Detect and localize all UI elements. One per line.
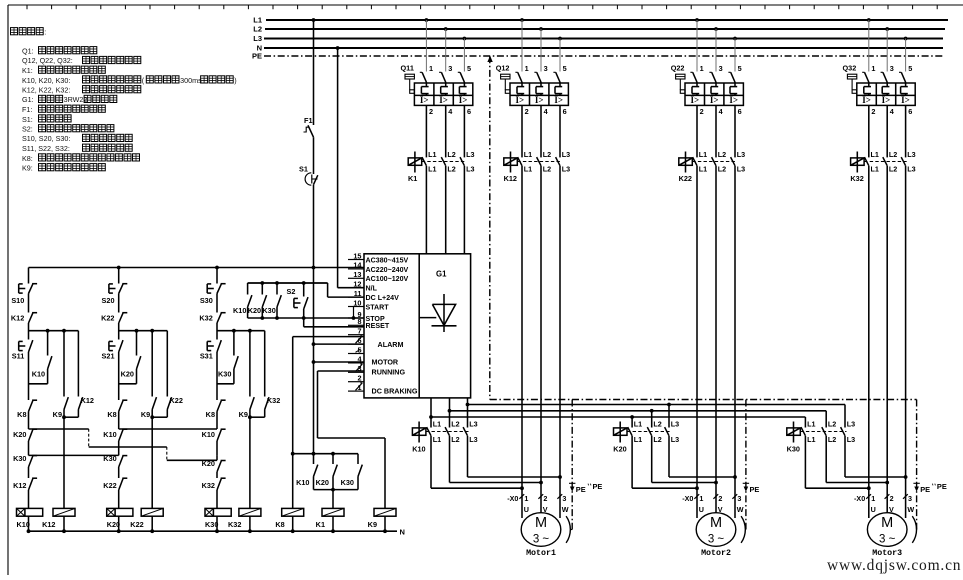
svg-text:L3: L3: [671, 435, 679, 444]
svg-text:L2: L2: [828, 420, 836, 429]
svg-text:1: 1: [525, 64, 529, 73]
svg-text:L2: L2: [447, 165, 455, 174]
svg-text:K8: K8: [17, 410, 26, 419]
svg-text:www.dqjsw.com.cn: www.dqjsw.com.cn: [827, 557, 961, 574]
svg-text:L3: L3: [562, 165, 570, 174]
svg-text:Q11: Q11: [401, 64, 414, 73]
svg-text:K22: K22: [679, 174, 692, 183]
svg-text:K10: K10: [202, 430, 215, 439]
svg-text:6: 6: [908, 107, 912, 116]
svg-text:K22: K22: [103, 481, 116, 490]
svg-text:3: 3: [544, 64, 548, 73]
svg-text:L3: L3: [907, 165, 915, 174]
svg-text:L2: L2: [543, 165, 551, 174]
svg-text:DC BRAKING: DC BRAKING: [372, 387, 418, 396]
svg-text:S11: S11: [12, 352, 25, 361]
svg-text:Q22: Q22: [671, 64, 685, 73]
svg-text:K9: K9: [239, 410, 248, 419]
svg-text:I>: I>: [439, 95, 448, 105]
svg-text:K10: K10: [32, 370, 45, 379]
svg-text:S10, S20, S30:: S10, S20, S30:: [22, 134, 70, 143]
svg-text:L1: L1: [634, 420, 642, 429]
svg-text:3: 3: [890, 64, 894, 73]
svg-text:Motor2: Motor2: [701, 549, 731, 558]
svg-text:L1: L1: [807, 435, 815, 444]
svg-text:K30: K30: [13, 454, 26, 463]
svg-text:L3: L3: [737, 150, 745, 159]
svg-text:RUNNING: RUNNING: [372, 368, 406, 377]
svg-text:1: 1: [700, 64, 704, 73]
svg-text:K12: K12: [42, 520, 55, 529]
svg-text:6: 6: [467, 107, 471, 116]
svg-text:K12: K12: [504, 174, 517, 183]
svg-text:L3: L3: [847, 420, 855, 429]
svg-text:PE: PE: [937, 482, 947, 491]
svg-text:N: N: [400, 528, 405, 537]
svg-text:S1:: S1:: [22, 115, 33, 124]
svg-text:PE: PE: [252, 52, 262, 61]
svg-text:L3: L3: [253, 34, 262, 43]
svg-text:Q12: Q12: [496, 64, 510, 73]
svg-text:I>: I>: [710, 95, 719, 105]
svg-text:L3: L3: [907, 150, 915, 159]
svg-text:5: 5: [738, 64, 742, 73]
svg-text:L1: L1: [428, 165, 436, 174]
svg-text:2: 2: [890, 494, 894, 503]
svg-text:K8: K8: [107, 410, 116, 419]
svg-text:L1: L1: [699, 150, 707, 159]
svg-text:U: U: [871, 505, 876, 514]
svg-text:-X0: -X0: [854, 494, 865, 503]
svg-text:L2: L2: [653, 420, 661, 429]
svg-text:2: 2: [429, 107, 433, 116]
svg-text:L3: L3: [466, 165, 474, 174]
svg-text:6: 6: [563, 107, 567, 116]
svg-text:PE: PE: [750, 485, 760, 494]
svg-text:K10: K10: [103, 430, 116, 439]
svg-text:K30: K30: [218, 370, 231, 379]
svg-text:L3: L3: [562, 150, 570, 159]
svg-text:I>: I>: [554, 95, 563, 105]
svg-text:L3: L3: [671, 420, 679, 429]
svg-text:5: 5: [563, 64, 567, 73]
svg-text:G1:: G1:: [22, 95, 34, 104]
svg-text:K9:: K9:: [22, 164, 33, 173]
svg-text:K32: K32: [202, 481, 215, 490]
svg-text:K32: K32: [850, 174, 863, 183]
svg-text:Q12, Q22, Q32:: Q12, Q22, Q32:: [22, 56, 73, 65]
svg-text:K20: K20: [316, 478, 329, 487]
svg-text:K30: K30: [262, 306, 275, 315]
svg-text:S30: S30: [200, 296, 213, 305]
svg-text:S2:: S2:: [22, 125, 33, 134]
svg-text:W: W: [907, 505, 914, 514]
svg-text:PE: PE: [593, 482, 603, 491]
svg-text:RESET: RESET: [366, 322, 390, 330]
svg-text:K12: K12: [11, 314, 24, 323]
svg-text:2: 2: [525, 107, 529, 116]
svg-text:L2: L2: [253, 25, 262, 34]
svg-text:F1:: F1:: [22, 105, 32, 114]
svg-text:L1: L1: [433, 435, 441, 444]
svg-text:L2: L2: [447, 150, 455, 159]
svg-text:13: 13: [353, 270, 361, 279]
svg-text:L2: L2: [889, 165, 897, 174]
svg-text:U: U: [524, 505, 529, 514]
svg-text:K9: K9: [141, 410, 150, 419]
svg-text:F1: F1: [304, 116, 313, 125]
svg-text:K10: K10: [412, 444, 425, 453]
svg-text:G1: G1: [436, 270, 447, 279]
svg-text:2: 2: [700, 107, 704, 116]
svg-text:PE: PE: [576, 485, 586, 494]
svg-text:L1: L1: [871, 150, 879, 159]
svg-text:S20: S20: [102, 296, 115, 305]
svg-text:6: 6: [738, 107, 742, 116]
svg-text:K1: K1: [316, 520, 325, 529]
svg-text:I>: I>: [690, 95, 699, 105]
svg-text:2: 2: [543, 494, 547, 503]
svg-text:W: W: [562, 505, 569, 514]
svg-text:L3: L3: [737, 165, 745, 174]
svg-text:M: M: [710, 515, 722, 531]
svg-text:L3: L3: [469, 435, 477, 444]
svg-text:7: 7: [357, 327, 361, 336]
svg-text:5: 5: [467, 64, 471, 73]
svg-text:-X0: -X0: [507, 494, 518, 503]
svg-text:3 ~: 3 ~: [708, 534, 725, 546]
svg-text:K8: K8: [206, 410, 215, 419]
svg-text:L1: L1: [253, 16, 262, 25]
svg-text:L1: L1: [428, 150, 436, 159]
svg-text:K30: K30: [341, 478, 354, 487]
svg-text:K20: K20: [613, 444, 626, 453]
svg-text:L1: L1: [634, 435, 642, 444]
svg-text:L1: L1: [807, 420, 815, 429]
svg-text:-X0: -X0: [682, 494, 693, 503]
svg-text:L3: L3: [466, 150, 474, 159]
svg-text:1: 1: [871, 494, 875, 503]
svg-text:Q32: Q32: [843, 64, 857, 73]
svg-text:S10: S10: [11, 296, 24, 305]
svg-text:K22: K22: [170, 396, 183, 405]
svg-text:K22: K22: [130, 520, 143, 529]
svg-text:14: 14: [353, 261, 362, 270]
svg-text:K12: K12: [81, 396, 94, 405]
svg-text::: :: [44, 28, 46, 37]
svg-text:3 ~: 3 ~: [533, 534, 550, 546]
svg-text:S1: S1: [299, 165, 308, 174]
svg-text:L2: L2: [451, 435, 459, 444]
svg-text:L2: L2: [718, 150, 726, 159]
svg-text:N/L: N/L: [366, 285, 378, 293]
svg-text:K20: K20: [13, 430, 26, 439]
svg-text:K22: K22: [101, 314, 114, 323]
svg-text:L3: L3: [469, 420, 477, 429]
svg-text:1: 1: [699, 494, 703, 503]
svg-text:M: M: [535, 515, 547, 531]
svg-text:I>: I>: [901, 95, 910, 105]
svg-text:2: 2: [357, 374, 361, 383]
svg-text:K1:: K1:: [22, 66, 33, 75]
svg-text:START: START: [366, 303, 390, 311]
svg-text:I>: I>: [420, 95, 429, 105]
svg-text:3: 3: [719, 64, 723, 73]
svg-text:U: U: [699, 505, 704, 514]
svg-text:300ms: 300ms: [180, 76, 202, 85]
svg-text:Q1:: Q1:: [22, 47, 34, 56]
svg-text:): ): [234, 76, 236, 85]
svg-text:2: 2: [871, 107, 875, 116]
svg-text:K9: K9: [368, 520, 377, 529]
svg-text:L2: L2: [828, 435, 836, 444]
svg-text:K32: K32: [267, 396, 280, 405]
svg-text:L2: L2: [889, 150, 897, 159]
svg-text:L2: L2: [543, 150, 551, 159]
svg-text:I>: I>: [862, 95, 871, 105]
svg-text:3: 3: [562, 494, 566, 503]
svg-text:AC220~240V: AC220~240V: [366, 266, 409, 274]
svg-text:15: 15: [353, 251, 361, 260]
svg-text:PE: PE: [920, 485, 930, 494]
svg-text:L1: L1: [524, 165, 532, 174]
svg-text:M: M: [881, 515, 893, 531]
svg-text:K12, K22, K32:: K12, K22, K32:: [22, 86, 70, 95]
svg-text:L2: L2: [451, 420, 459, 429]
svg-text:I>: I>: [515, 95, 524, 105]
svg-text:1: 1: [429, 64, 433, 73]
svg-text:5: 5: [908, 64, 912, 73]
svg-text:MOTOR: MOTOR: [372, 357, 399, 366]
svg-text:1: 1: [871, 64, 875, 73]
svg-text:DC L+24V: DC L+24V: [366, 294, 400, 302]
svg-text:K30: K30: [787, 444, 800, 453]
svg-text:K10: K10: [296, 478, 309, 487]
svg-text:S2: S2: [287, 287, 296, 296]
svg-text:AC380~415V: AC380~415V: [366, 256, 409, 264]
svg-text:3: 3: [448, 64, 452, 73]
svg-text:I>: I>: [729, 95, 738, 105]
svg-text:1: 1: [524, 494, 528, 503]
svg-text:L3: L3: [847, 435, 855, 444]
svg-text:3: 3: [908, 494, 912, 503]
svg-text:I>: I>: [535, 95, 544, 105]
svg-text:K8: K8: [275, 520, 284, 529]
svg-text:3 ~: 3 ~: [879, 534, 896, 546]
svg-text:I>: I>: [459, 95, 468, 105]
svg-text:W: W: [737, 505, 744, 514]
svg-text:S11, S22, S32:: S11, S22, S32:: [22, 144, 70, 153]
svg-text:K9: K9: [53, 410, 62, 419]
svg-text:Motor1: Motor1: [526, 549, 556, 558]
svg-text:L1: L1: [433, 420, 441, 429]
svg-text:L1: L1: [524, 150, 532, 159]
svg-text:L2: L2: [653, 435, 661, 444]
svg-text:L2: L2: [718, 165, 726, 174]
svg-text:K1: K1: [408, 174, 417, 183]
svg-text:L1: L1: [871, 165, 879, 174]
svg-text:ALARM: ALARM: [378, 340, 404, 349]
svg-text:S21: S21: [102, 352, 115, 361]
svg-text:S31: S31: [200, 352, 213, 361]
svg-text:K20: K20: [248, 306, 261, 315]
svg-text:AC100~120V: AC100~120V: [366, 275, 409, 283]
svg-text:K10, K20, K30:: K10, K20, K30:: [22, 76, 70, 85]
svg-text:K32: K32: [199, 314, 212, 323]
svg-text:K10: K10: [233, 306, 246, 315]
svg-text:10: 10: [353, 298, 361, 307]
svg-text:3: 3: [737, 494, 741, 503]
svg-text:K20: K20: [121, 370, 134, 379]
svg-text:L1: L1: [699, 165, 707, 174]
svg-text:2: 2: [718, 494, 722, 503]
svg-text:K8:: K8:: [22, 154, 33, 163]
svg-text:I>: I>: [882, 95, 891, 105]
svg-text:K32: K32: [228, 520, 241, 529]
svg-text:K12: K12: [13, 481, 26, 490]
